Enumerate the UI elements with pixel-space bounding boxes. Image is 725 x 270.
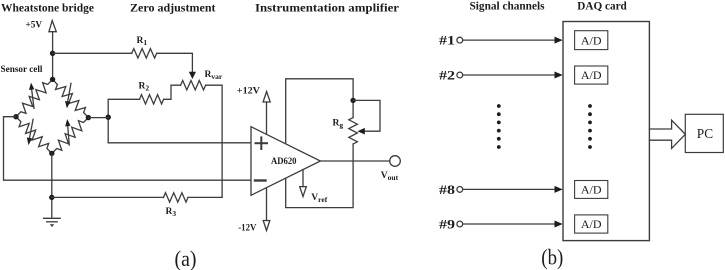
- node bridge left: [13, 114, 18, 119]
- title Zero adjustment: [130, 2, 216, 14]
- wire R1 to Rvar wiper: [157, 53, 193, 72]
- svg-text:#1: #1: [439, 33, 455, 48]
- wire ground to R3: [52, 196, 164, 198]
- wire Rvar right end down to R3: [206, 85, 223, 197]
- node junction dot R3 to ground rail: [49, 195, 54, 200]
- terminal Vout: [381, 156, 401, 182]
- channel #2 input: [439, 68, 563, 83]
- node junction dot Rg top: [350, 98, 355, 103]
- A/D converter 2: [575, 66, 608, 84]
- caption (a): [175, 246, 197, 270]
- caption (b): [541, 244, 563, 269]
- wire R2 left to plus-input rail: [108, 99, 139, 143]
- wire plus input to op-amp: [108, 142, 251, 144]
- wire Rvar left end to R2: [164, 85, 181, 99]
- A/D converter 1: [575, 31, 608, 50]
- power +5V supply symbol: [26, 20, 57, 31]
- wire Rg wiper feedback loop: [353, 100, 380, 134]
- resistor R3: [164, 193, 189, 218]
- power +12V symbol: [237, 86, 270, 102]
- wire +5V to bridge top node: [52, 32, 54, 80]
- svg-text:Rvar: Rvar: [205, 70, 223, 81]
- resistor R1: [132, 36, 157, 58]
- node bridge right: [86, 115, 91, 120]
- wiper arrow into Rvar: [189, 72, 196, 79]
- node junction dot on +5V rail: [50, 51, 55, 56]
- svg-text:A/D: A/D: [581, 217, 602, 231]
- wire R3 to Rvar riser: [188, 196, 222, 198]
- title Wheatstone bridge: [1, 2, 94, 14]
- svg-text:#2: #2: [439, 68, 455, 83]
- wire -12V supply: [266, 184, 268, 221]
- wire bridge bottom node to ground: [51, 153, 53, 217]
- ground: [44, 218, 61, 227]
- svg-text:+12V: +12V: [237, 86, 260, 96]
- svg-text:Signal channels: Signal channels: [470, 0, 546, 12]
- channel #1 input: [439, 33, 563, 48]
- A/D converter 4: [575, 215, 608, 233]
- bridge arm strain gauge top-left: [16, 79, 53, 116]
- svg-text:Rg: Rg: [333, 118, 344, 129]
- reference Vref symbol: [300, 170, 328, 205]
- node bridge bottom: [49, 151, 54, 156]
- channel #8 input: [439, 182, 563, 197]
- title Signal channels: [470, 0, 546, 12]
- svg-text:AD620: AD620: [271, 157, 297, 167]
- svg-text:Sensor cell: Sensor cell: [1, 65, 43, 75]
- svg-text:(a): (a): [175, 246, 197, 270]
- op-amp U1 AD620: [251, 127, 320, 196]
- DAQ card box: [563, 22, 649, 241]
- power -12V symbol: [238, 221, 270, 234]
- svg-text:-12V: -12V: [238, 223, 256, 233]
- svg-text:R1: R1: [137, 36, 148, 47]
- sensor cell label: [1, 65, 43, 75]
- svg-text:R3: R3: [166, 207, 177, 218]
- svg-text:Instrumentation amplifier: Instrumentation amplifier: [255, 2, 399, 14]
- svg-text:+5V: +5V: [26, 20, 43, 30]
- bridge arm strain gauge bottom-right: [52, 118, 89, 154]
- resistor R2: [139, 81, 164, 104]
- bridge arm strain gauge bottom-left: [16, 117, 52, 154]
- svg-text:#8: #8: [439, 182, 456, 197]
- bridge arm strain gauge top-right: [53, 79, 89, 117]
- svg-text:(b): (b): [541, 244, 563, 269]
- wire bridge right node to R2 rail: [88, 117, 108, 119]
- wire +5V rail to R1: [53, 52, 132, 54]
- svg-text:A/D: A/D: [581, 183, 602, 197]
- node junction dot bridge output to R2 rail: [106, 115, 111, 120]
- title DAQ card: [577, 0, 627, 12]
- channel #9 input: [439, 217, 563, 232]
- ellipsis dots channels column: [497, 104, 501, 149]
- wire +12V supply: [266, 102, 268, 140]
- PC box: [685, 114, 723, 152]
- resistor Rg: [333, 118, 358, 144]
- svg-text:Vref: Vref: [311, 193, 327, 204]
- svg-text:DAQ card: DAQ card: [577, 0, 627, 12]
- block arrow DAQ to PC: [649, 120, 685, 148]
- node bridge top: [50, 77, 55, 82]
- svg-text:#9: #9: [439, 217, 456, 232]
- svg-text:A/D: A/D: [581, 68, 602, 82]
- title Instrumentation amplifier: [255, 2, 399, 14]
- potentiometer Rvar: [181, 70, 223, 90]
- svg-text:Wheatstone bridge: Wheatstone bridge: [1, 2, 94, 14]
- gain-loop box around amplifier: [286, 79, 353, 208]
- svg-text:A/D: A/D: [581, 33, 602, 47]
- wire bridge left node to minus input: [4, 117, 252, 181]
- svg-text:R2: R2: [139, 81, 150, 92]
- svg-text:Zero adjustment: Zero adjustment: [130, 2, 216, 14]
- svg-text:PC: PC: [697, 127, 713, 142]
- svg-text:Vout: Vout: [381, 171, 399, 182]
- A/D converter 3: [575, 181, 608, 199]
- ellipsis dots DAQ column: [588, 104, 592, 149]
- wire op-amp output: [320, 160, 389, 162]
